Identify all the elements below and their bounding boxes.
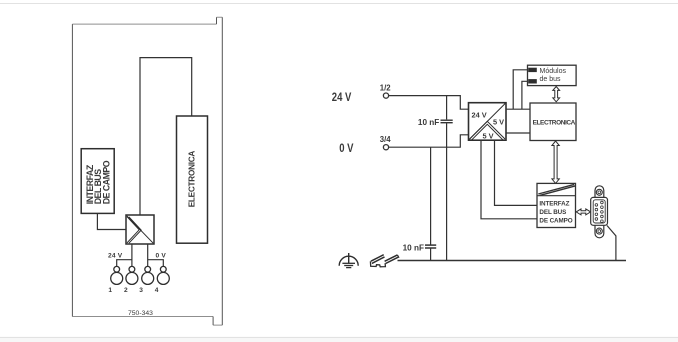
label 10nF (C2) xyxy=(403,244,424,253)
box: INTERFAZ DEL BUS DE CAMPO (left module) xyxy=(81,149,114,214)
wire: D-sub shield to earth rail xyxy=(607,226,616,261)
capacitor C1 10nF branch: 24V rail to earth rail xyxy=(441,96,453,261)
wire: DC/DC bottom to contact 3 xyxy=(147,244,149,267)
power contact 2 xyxy=(124,266,138,294)
svg-text:1/2: 1/2 xyxy=(380,83,392,92)
svg-text:5 V: 5 V xyxy=(493,118,504,127)
svg-text:Módulos: Módulos xyxy=(540,68,567,75)
svg-text:ELECTRONICA: ELECTRONICA xyxy=(533,119,576,126)
svg-text:DE CAMPO: DE CAMPO xyxy=(539,218,572,225)
arrow: fieldbus interface / D-sub (double-headed outline) xyxy=(576,209,590,215)
svg-text:10 nF: 10 nF xyxy=(403,244,424,253)
svg-text:ELECTRONICA: ELECTRONICA xyxy=(188,151,197,208)
wire bracket 0V: contacts 3-4 xyxy=(148,260,164,267)
svg-text:4: 4 xyxy=(155,287,159,294)
svg-text:750-343: 750-343 xyxy=(128,310,153,317)
label 0V (schematic) xyxy=(339,142,353,155)
svg-text:2: 2 xyxy=(124,287,128,294)
svg-text:INTERFAZ: INTERFAZ xyxy=(539,201,569,208)
module outline 750-343 coupler body xyxy=(72,17,222,325)
wire: DC/DC bottom right to INTERFAZ upper-left input xyxy=(495,140,538,205)
page rule top xyxy=(0,3,678,5)
svg-text:10 nF: 10 nF xyxy=(418,118,439,127)
box: ELECTRONICA (left module) xyxy=(177,116,208,243)
box: INTERFAZ DEL BUS DE CAMPO (schematic) with isolation band xyxy=(537,183,576,227)
wire: DC/DC to ELECTRONICA (lower) xyxy=(506,132,530,134)
svg-text:3: 3 xyxy=(139,287,143,294)
wire: 0V rail to DC/DC lower-left input xyxy=(389,135,469,147)
svg-text:1: 1 xyxy=(108,287,112,294)
terminal 3/4 xyxy=(380,135,392,150)
wire: 24V rail to DC/DC upper-left input xyxy=(389,96,469,110)
label 24V (schematic) xyxy=(332,91,352,104)
DC/DC converter 24V/5V/5V xyxy=(469,103,507,141)
power contact 4 xyxy=(155,266,170,294)
terminal 1/2 xyxy=(380,83,392,98)
svg-text:24 V: 24 V xyxy=(108,253,123,260)
svg-text:DEL BUS: DEL BUS xyxy=(539,209,566,216)
wire: DC/DC 5V out to ELECTRONICA (upper) xyxy=(506,108,530,110)
arrow: electronics / fieldbus interface (double-headed outline) xyxy=(552,141,559,183)
box: Modulos de bus xyxy=(528,65,577,85)
svg-text:DE CAMPO: DE CAMPO xyxy=(101,160,111,204)
wire: DC/DC bottom left to INTERFAZ lower-left input xyxy=(481,140,537,219)
power contact 3 xyxy=(139,266,153,294)
svg-text:3/4: 3/4 xyxy=(380,135,392,144)
svg-text:0 V: 0 V xyxy=(339,142,353,155)
earth rail xyxy=(398,260,627,262)
capacitor C2 10nF branch: 0V rail to earth rail xyxy=(425,147,436,260)
label 24V (left module) xyxy=(108,253,123,260)
svg-text:de bus: de bus xyxy=(540,76,562,83)
label 10nF (C1) xyxy=(418,118,439,127)
DC/DC converter symbol (left module) xyxy=(126,215,154,244)
wire bracket 24V: contacts 1-2 xyxy=(117,260,132,267)
label 0V (left module) xyxy=(156,253,167,260)
label 750-343 xyxy=(128,310,153,317)
power contact 1 xyxy=(108,266,122,294)
svg-text:0 V: 0 V xyxy=(156,253,167,260)
svg-text:24 V: 24 V xyxy=(472,111,487,120)
svg-text:5 V: 5 V xyxy=(483,131,494,140)
svg-text:24 V: 24 V xyxy=(332,91,352,104)
wire: tap up to bus modules pin 2 xyxy=(522,81,528,109)
wire: INTERFAZ bottom down then right to DC/DC left xyxy=(97,213,126,229)
D-sub 9 connector xyxy=(591,186,608,238)
DIN rail (carrier rail) symbol xyxy=(370,255,398,267)
box: ELECTRONICA (schematic) xyxy=(530,103,576,141)
arrow: bus modules / electronics (double-headed outline) xyxy=(553,87,560,102)
functional earth symbol xyxy=(339,253,358,268)
wire: DC/DC bottom to contact 2 xyxy=(131,244,133,267)
wire: tap up to bus modules pin 1 xyxy=(513,70,528,109)
wire: DC/DC top stub up and over to ELECTRONICA top xyxy=(140,58,192,215)
page rule bottom xyxy=(0,338,678,342)
